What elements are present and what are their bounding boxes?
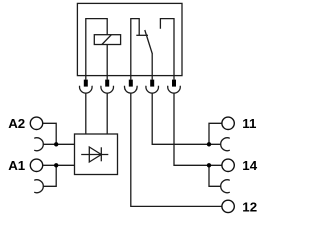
- wire coil branch from terminal 1 up and over: [86, 19, 107, 80]
- junction node A1: [54, 163, 58, 167]
- pin terminal 5: [172, 80, 176, 87]
- junction node 11: [207, 142, 211, 146]
- socket terminal 2: [101, 86, 114, 93]
- wire node 14 down to socket: [209, 165, 221, 186]
- diode triangle: [89, 147, 101, 162]
- NC fixed contact tick: [136, 34, 148, 36]
- relay coil: [94, 35, 120, 45]
- wire terminal 3 to terminal 12: [131, 93, 222, 206]
- socket terminal 1: [80, 86, 93, 93]
- wire terminal 2 to rectifier box: [106, 93, 108, 134]
- contact lever: [145, 30, 152, 54]
- socket below 14: [221, 180, 230, 193]
- wire NC branch from terminal 3 up and over: [131, 19, 139, 80]
- svg-text:A2: A2: [8, 116, 25, 131]
- wire terminal 5 to terminal 14: [174, 93, 222, 165]
- terminal 12 circle: [222, 200, 234, 212]
- terminal A1 circle: [30, 159, 42, 171]
- wire socket up to A1 node: [43, 165, 56, 186]
- socket below A2: [34, 138, 43, 151]
- relay housing outline: [77, 3, 182, 75]
- pin terminal 2: [105, 80, 109, 87]
- socket terminal 4: [146, 86, 159, 93]
- svg-text:A1: A1: [8, 158, 26, 173]
- wire A1 to rectifier box: [43, 164, 75, 166]
- pin terminal 3: [129, 80, 133, 87]
- wire terminal 1 to rectifier box: [85, 93, 87, 134]
- wire node 11 up to circle 11: [209, 123, 222, 144]
- coil slash: [102, 35, 112, 45]
- pin terminal 4: [150, 80, 154, 87]
- diode cathode bar: [100, 147, 102, 161]
- wire NO branch terminal 5 up and over: [160, 19, 174, 80]
- junction node A2: [54, 142, 58, 146]
- socket below 11: [221, 138, 230, 151]
- terminal A2 circle: [30, 117, 42, 129]
- pin terminal 1: [84, 80, 88, 87]
- junction node 14: [207, 163, 211, 167]
- svg-text:14: 14: [242, 158, 257, 173]
- svg-text:11: 11: [242, 116, 257, 131]
- wire terminal 4 to node 11: [152, 93, 221, 144]
- wire A2 node to rectifier box: [43, 143, 75, 145]
- terminal 14 circle: [222, 159, 234, 171]
- svg-text:12: 12: [242, 200, 257, 215]
- socket below A1: [34, 180, 43, 193]
- socket terminal 3: [124, 86, 137, 93]
- socket terminal 5: [168, 86, 181, 93]
- terminal 11 circle: [222, 117, 234, 129]
- wire A2 down to node: [43, 123, 57, 144]
- wire common lever to terminal 4: [151, 53, 153, 80]
- rectifier box: [75, 134, 118, 175]
- wire coil bottom to terminal 2: [106, 45, 108, 80]
- diode line: [81, 154, 108, 156]
